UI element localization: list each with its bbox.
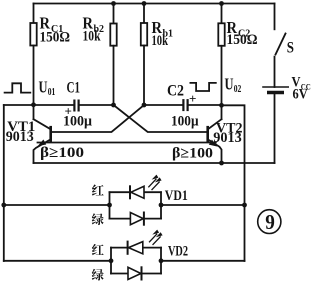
wire right rail upper + switch [274,4,276,30]
svg-text:VD2: VD2 [168,244,188,260]
svg-text:C2: C2 [167,83,184,100]
svg-text:C1: C1 [67,80,81,97]
label VCC [292,75,311,92]
resistor RC1 [30,23,36,46]
label Rb1 [152,18,174,40]
label RC2 [227,18,251,40]
wire cross A: Rb2 node to VT2 base [114,105,208,132]
wire emitter tie line [38,142,216,144]
node VD2 right [159,258,164,263]
node right vertical VD1 [242,203,247,208]
wire left rail [3,105,5,261]
LED VD2 green diode (points right) [128,267,141,279]
wire RC1 vertical top [33,4,35,24]
svg-text:9013: 9013 [6,129,34,145]
LED VD1 emission arrows [149,175,161,189]
svg-text:6V: 6V [293,87,308,103]
wire RC1 vertical bottom [33,46,35,120]
svg-text:10k: 10k [152,33,169,49]
wire Rb2 vertical bottom [113,46,115,105]
wire C2 to VT2 collector node [189,104,222,106]
wire RC2 vertical top [221,4,223,24]
wire VD1 row left [4,204,110,206]
wire cross B: Rb1 node to VT1 base [52,105,145,132]
node top rail RC2 [219,1,224,6]
svg-text:β≥100: β≥100 [40,145,84,161]
label Rb2 [83,14,105,36]
node VD1 right [159,203,164,208]
node VD2 left [109,258,114,263]
LED VD1 green diode (points right) [130,213,143,225]
wire Rb2 vertical top [113,4,115,24]
node top rail Rb1 [142,1,147,6]
wire Rb1 node to C2 [144,104,182,106]
node VT1 collector [31,102,36,107]
wire Rb1 vertical bottom [143,46,145,106]
resistor Rb2 [110,24,116,46]
battery VCC [263,86,288,88]
wire top rail [34,3,275,5]
wire VD2 row right [161,260,245,262]
switch S [276,34,286,55]
resistor RC2 [218,23,224,46]
label green VD1 (lv) [92,213,104,225]
node left rail VD1 [1,203,6,208]
svg-text:U: U [225,75,234,94]
wire VD1 row right [161,204,245,206]
wire VD2 row left [4,260,111,262]
svg-text:9: 9 [265,210,275,234]
svg-text:S: S [287,40,294,57]
circled 9 figure number [258,210,281,234]
wire battery to bottom line [274,94,276,163]
resistor Rb1 [141,23,147,46]
svg-text:VD1: VD1 [165,188,188,204]
wire bottom emitter/ground line [34,162,275,164]
label U02 [225,75,242,95]
label RC1 [40,14,64,36]
transistor VT2 [206,127,209,141]
svg-text:01: 01 [48,87,56,98]
LED VD1 loop rectangle [109,192,111,218]
svg-text:+: + [189,91,196,106]
node VT2 emitter ground [219,161,224,166]
LED VD1 red diode (points left) [129,186,131,198]
label red VD2 (hong) [92,244,104,255]
svg-text:U: U [39,78,48,97]
svg-text:100μ: 100μ [63,114,92,130]
label red VD1 (hong) [92,185,104,196]
svg-text:100μ: 100μ [171,114,199,130]
label green VD2 (lv) [92,269,104,281]
LED VD2 loop rectangle [110,248,112,274]
transistor VT1 [49,127,52,141]
node VT2 collector [219,103,224,108]
node Rb2 bottom [111,103,116,108]
waveform U02 pulse [190,83,215,91]
wire VT2 collector extension to right vertical [222,105,245,261]
svg-text:10k: 10k [83,29,102,45]
svg-text:β≥100: β≥100 [172,146,213,162]
svg-text:9013: 9013 [213,130,242,146]
capacitor C1 [74,101,78,111]
node VD1 left [107,203,112,208]
node Rb1 bottom [142,103,147,108]
wire RC2 vertical bottom [221,46,223,119]
node top rail Rb2 [111,1,116,6]
wire Rb1 vertical top [143,4,145,24]
svg-text:150Ω: 150Ω [40,30,71,46]
svg-text:150Ω: 150Ω [227,32,258,48]
capacitor C2 [183,100,187,110]
LED VD2 red diode (points left) [127,242,129,254]
waveform U01 pulse [5,83,31,92]
wire C1 to Rb2 node [80,104,114,106]
label U01 [39,78,56,98]
LED VD2 emission arrows [150,230,162,244]
wire main horizontal left (VT1 collector node to C1) [4,104,73,106]
svg-text:02: 02 [234,84,242,95]
